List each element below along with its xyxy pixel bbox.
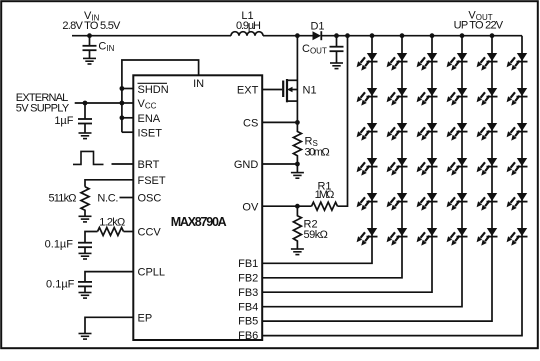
svg-text:5V SUPPLY: 5V SUPPLY	[16, 103, 70, 115]
wire FB1 string	[262, 36, 372, 264]
wire FB5 string	[262, 36, 492, 321]
svg-text:N1: N1	[303, 84, 317, 96]
svg-text:CS: CS	[243, 118, 258, 130]
node LED col3 top	[430, 33, 435, 38]
resistor R2	[293, 206, 301, 249]
svg-text:511kΩ: 511kΩ	[49, 192, 77, 204]
node OV	[295, 204, 300, 209]
wire R1 to VOUT riser	[338, 36, 348, 207]
capacitor 0.1uF CPLL	[78, 282, 92, 293]
wire FB3 string	[262, 36, 432, 293]
capacitor 1uF	[78, 103, 92, 133]
LED D-col2 row1..6	[387, 53, 408, 71]
inductor L1	[231, 32, 263, 36]
wire OSC N.C.	[120, 197, 134, 199]
node COUT	[334, 33, 339, 38]
wire FSET	[85, 180, 133, 187]
wire FB4 string	[262, 36, 462, 307]
wire D1 to output rail end	[321, 35, 522, 37]
wire FB2 string	[262, 36, 402, 278]
svg-text:SHDN: SHDN	[138, 84, 169, 96]
ground of 511k	[79, 216, 92, 222]
svg-text:OSC: OSC	[138, 193, 162, 205]
wire FB6 string	[262, 36, 522, 336]
svg-text:EXT: EXT	[237, 85, 259, 97]
diode D1	[313, 31, 322, 40]
node bus ENA	[120, 115, 125, 120]
svg-text:CCV: CCV	[138, 227, 162, 239]
node LED col4 top	[460, 33, 465, 38]
ground of CCV cap	[79, 253, 92, 259]
svg-text:1.2kΩ: 1.2kΩ	[99, 217, 125, 229]
ground of R2	[291, 249, 304, 255]
wire external 5V supply	[75, 102, 122, 104]
wire L1 to D1	[263, 35, 313, 37]
wire VCC stub	[122, 102, 133, 104]
resistor 511k	[81, 187, 89, 217]
ground of 1uF	[79, 133, 92, 139]
node GND	[295, 162, 300, 167]
ground of COUT	[330, 63, 343, 69]
svg-text:D1: D1	[310, 20, 324, 32]
LED D-col6 row1..6	[507, 53, 528, 71]
svg-text:MAX8790A: MAX8790A	[171, 215, 227, 229]
wire CS	[262, 121, 297, 123]
svg-text:UP TO 22V: UP TO 22V	[454, 20, 504, 32]
ground of EP	[79, 334, 92, 340]
pin SHDN	[138, 83, 169, 96]
svg-text:ISET: ISET	[138, 127, 163, 139]
wire BRT	[112, 163, 134, 165]
wire SHDN stub	[122, 88, 133, 90]
wire ISET stub	[122, 131, 133, 133]
wire top rail VIN to L1	[72, 35, 231, 37]
capacitor COUT	[330, 36, 344, 63]
svg-text:0.1µF: 0.1µF	[45, 238, 74, 250]
capacitor CIN	[83, 36, 97, 59]
wire GND	[262, 163, 297, 165]
node 1uF	[83, 101, 88, 106]
capacitor 0.1uF CCV	[78, 243, 92, 254]
svg-text:FSET: FSET	[138, 175, 166, 187]
wire CCV right	[124, 231, 134, 233]
wire EP	[85, 317, 133, 333]
resistor 1.2k	[98, 228, 124, 236]
node drain	[295, 33, 300, 38]
wire CPLL	[85, 272, 133, 282]
node bus VCC	[120, 101, 125, 106]
svg-text:N.C.: N.C.	[97, 192, 118, 204]
svg-text:FB4: FB4	[238, 301, 258, 313]
svg-text:CPLL: CPLL	[138, 267, 166, 279]
wire CCV left	[85, 232, 98, 243]
wire OV	[262, 205, 311, 207]
svg-text:0.9µH: 0.9µH	[236, 20, 261, 32]
op IC U1 MAX8790A box	[133, 75, 262, 340]
svg-text:59kΩ: 59kΩ	[304, 229, 328, 241]
ground of CPLL cap	[79, 293, 92, 299]
svg-text:0.1µF: 0.1µF	[46, 278, 75, 290]
node CS	[295, 120, 300, 125]
LED D-col1 row1..6	[357, 53, 378, 71]
svg-text:2.8V TO 5.5V: 2.8V TO 5.5V	[62, 20, 121, 32]
ground of RS	[296, 164, 298, 173]
node LED col2 top	[400, 33, 405, 38]
LED D-col3 row1..6	[417, 53, 438, 71]
junction node dots	[83, 33, 495, 208]
svg-text:FB3: FB3	[238, 287, 258, 299]
svg-text:1µF: 1µF	[54, 115, 73, 127]
wire IN pin routing	[122, 60, 199, 132]
svg-text:FB6: FB6	[238, 330, 258, 342]
svg-text:IN: IN	[193, 78, 204, 90]
svg-text:30mΩ: 30mΩ	[305, 146, 330, 158]
BRT pulse waveform	[73, 151, 104, 164]
node bus SHDN	[120, 86, 125, 91]
svg-text:1MΩ: 1MΩ	[315, 189, 335, 201]
svg-text:BRT: BRT	[138, 159, 160, 171]
svg-text:FB2: FB2	[238, 272, 258, 284]
svg-text:FB5: FB5	[238, 316, 258, 328]
resistor R1	[312, 202, 338, 210]
svg-text:GND: GND	[234, 159, 259, 171]
svg-text:FB1: FB1	[238, 258, 258, 270]
node R1 riser	[345, 33, 350, 38]
svg-text:EP: EP	[138, 312, 153, 324]
transistor N1	[283, 36, 297, 123]
LED D-col4 row1..6	[447, 53, 468, 71]
ground of CIN	[83, 58, 96, 64]
svg-text:ENA: ENA	[138, 113, 161, 125]
wire EXT to gate	[262, 89, 282, 91]
wire ENA stub	[122, 117, 133, 119]
node CIN	[87, 33, 92, 38]
svg-text:OV: OV	[242, 201, 259, 213]
node LED col1 top	[370, 33, 375, 38]
resistor RS	[293, 122, 301, 164]
LED D-col5 row1..6	[477, 53, 498, 71]
node LED col5 top	[490, 33, 495, 38]
